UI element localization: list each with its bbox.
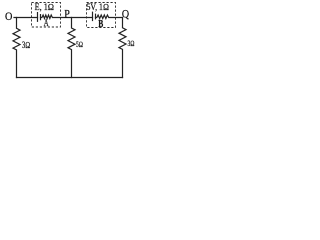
svg-text:3Ω: 3Ω	[128, 39, 135, 48]
svg-text:O: O	[5, 9, 13, 23]
svg-text:5Ω: 5Ω	[76, 40, 83, 49]
svg-text:3Ω: 3Ω	[22, 40, 30, 50]
svg-text:A: A	[44, 18, 49, 29]
svg-text:B: B	[98, 19, 103, 30]
svg-text:P: P	[64, 6, 70, 20]
svg-text:Q: Q	[122, 6, 129, 20]
svg-text:E, 1Ω: E, 1Ω	[35, 2, 55, 12]
svg-text:5V, 1Ω: 5V, 1Ω	[87, 2, 110, 12]
